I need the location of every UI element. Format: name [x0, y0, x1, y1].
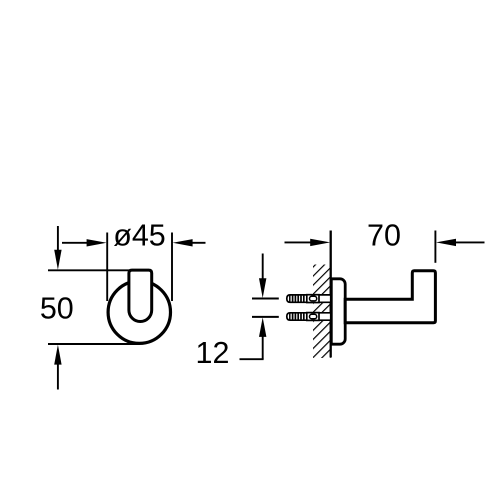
dimension ø45: right extension line — [171, 233, 173, 302]
front view: circle (hook base, ø45) — [108, 281, 170, 343]
dimension 12: upper arrowhead — [259, 278, 266, 298]
dimension 50: bottom extension line — [48, 343, 139, 345]
dimension 50: lower arrowhead — [54, 345, 61, 365]
svg-text:ø45: ø45 — [113, 219, 166, 253]
screw anchor 1: cap line — [289, 295, 291, 302]
svg-text:50: 50 — [40, 291, 74, 325]
side view: wall hatching — [313, 265, 331, 359]
screw anchor 2: body — [287, 313, 332, 320]
dimension 70: right dimension line — [454, 241, 485, 243]
side view: hook arm and upright profile — [345, 271, 435, 323]
dimension 12: lower tick — [252, 316, 279, 318]
screw anchor 1: collar inner — [310, 296, 317, 301]
dimension ø45: right arrowhead — [173, 239, 193, 246]
dimension ø45: right dimension line — [191, 242, 206, 244]
front view: hook U-shape — [129, 270, 152, 321]
svg-text:70: 70 — [367, 219, 401, 253]
dimension 70: right arrowhead — [436, 239, 456, 246]
dimension 12: leader line — [240, 358, 264, 360]
dimension 12: lower dimension line — [262, 335, 264, 359]
dimension 50: top extension line — [48, 269, 130, 271]
screw anchor 2: cap line — [289, 313, 291, 320]
dimension 70: left arrowhead — [310, 239, 330, 246]
dimension 50: lower dimension line — [57, 363, 59, 390]
dimension ø45: left arrowhead — [87, 239, 107, 246]
screw anchor 1: ribs — [293, 295, 304, 302]
dimension 50: upper arrowhead — [54, 250, 61, 270]
screw anchor 1: body — [287, 295, 332, 302]
side view: wall face line (also 70 dim left extension) — [330, 231, 332, 358]
dimension 50: upper dimension line — [57, 226, 59, 252]
dimension 12: upper tick — [252, 298, 279, 300]
dimension ø45: left extension line — [106, 233, 108, 302]
dimension 70: right extension line — [434, 231, 436, 263]
dimension 12: lower arrowhead — [259, 317, 266, 337]
screw anchor 2: collar inner — [310, 314, 317, 319]
screw anchor 2: collar — [307, 313, 319, 321]
dimension ø45: left dimension line — [62, 242, 89, 244]
dimension 70: left dimension line — [285, 241, 313, 243]
screw anchor 1: collar — [307, 295, 319, 303]
svg-text:12: 12 — [196, 336, 230, 370]
screw anchor 2: ribs — [293, 313, 304, 320]
side view: wall flange plate — [331, 279, 345, 344]
dimension 12: upper dimension line — [262, 254, 264, 281]
